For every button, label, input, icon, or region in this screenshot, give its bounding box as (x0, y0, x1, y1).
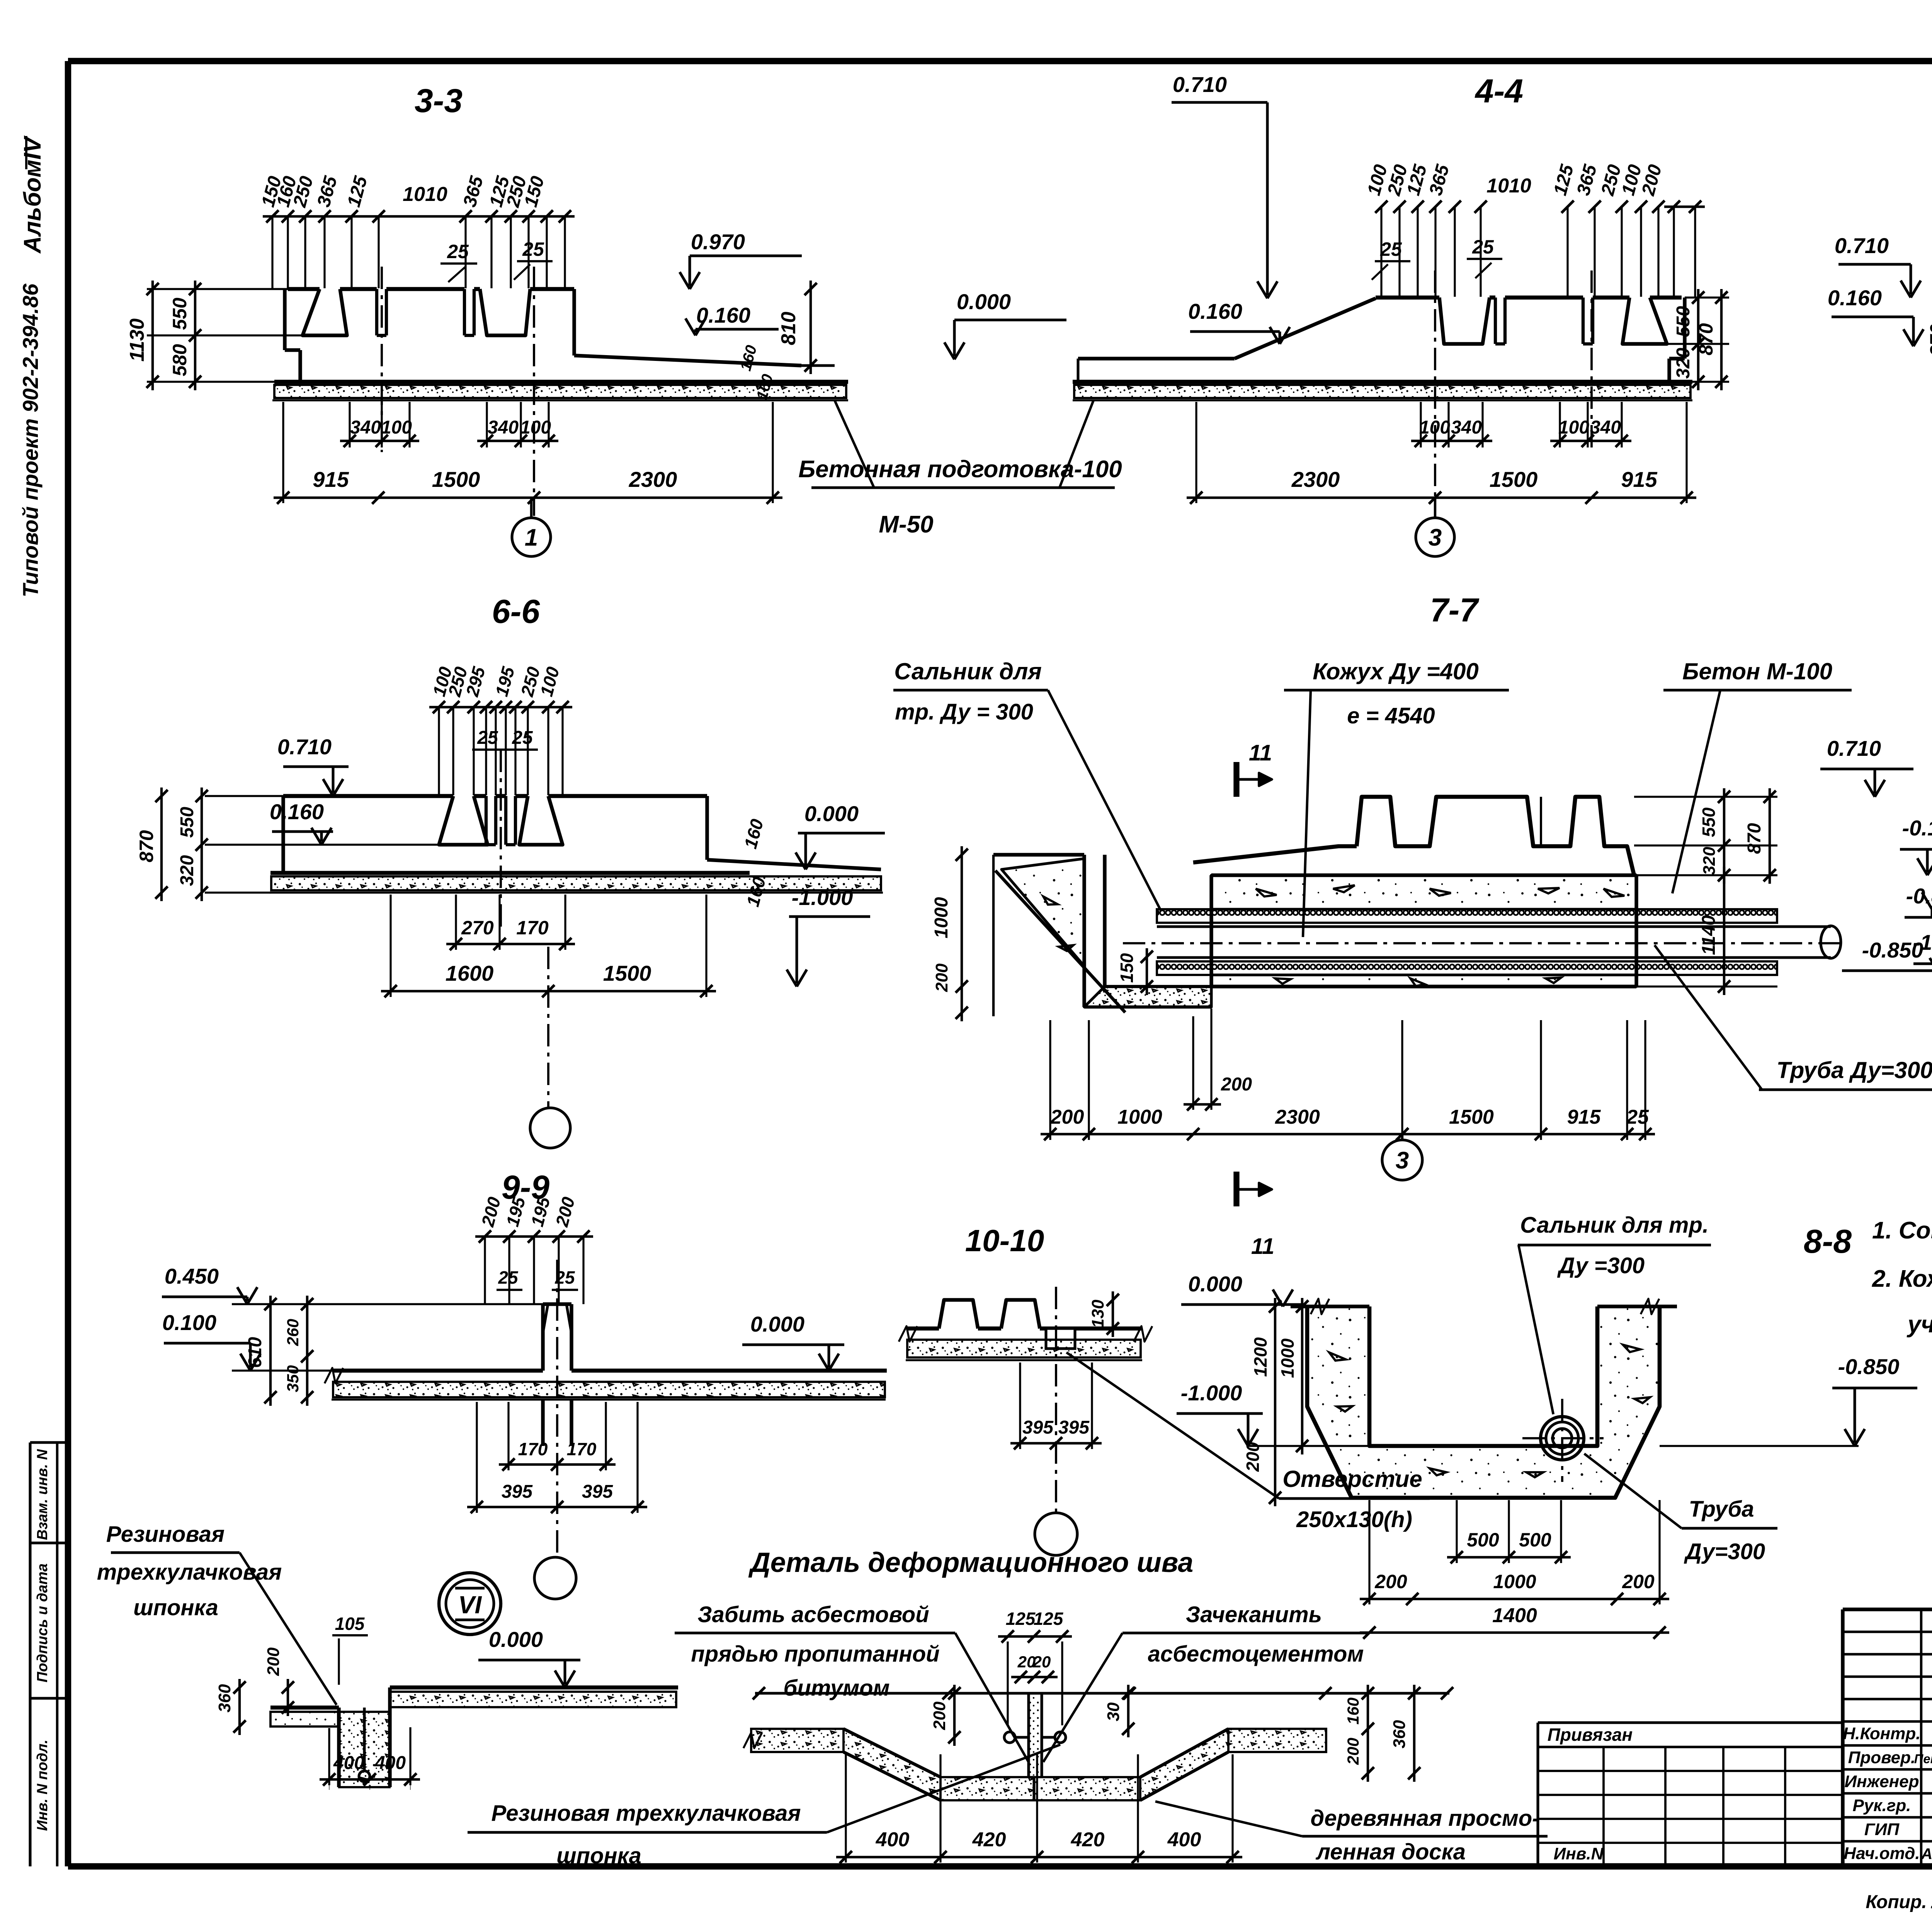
svg-text:395: 395 (1058, 1417, 1090, 1438)
svg-text:Н.Контр.: Н.Контр. (1843, 1724, 1920, 1743)
svg-text:трехкулачковая: трехкулачковая (97, 1560, 282, 1585)
svg-text:610: 610 (245, 1337, 265, 1368)
svg-text:Подпись и дата: Подпись и дата (34, 1563, 51, 1682)
svg-text:Деталь деформационного шва: Деталь деформационного шва (748, 1547, 1194, 1578)
svg-text:Рук.гр.: Рук.гр. (1853, 1796, 1911, 1815)
section 4-4 profile top surface (1376, 296, 1439, 300)
svg-text:2. Кожух Ду=400 и сальник: 2. Кожух Ду=400 и сальник для трубы Ду=3… (1872, 1266, 1932, 1292)
svg-text:Зачеканить: Зачеканить (1186, 1602, 1322, 1627)
svg-text:Труба: Труба (1689, 1497, 1754, 1522)
svg-text:1500: 1500 (603, 961, 651, 985)
svg-text:810: 810 (777, 312, 800, 345)
svg-text:420: 420 (1071, 1829, 1105, 1851)
svg-text:1000: 1000 (1117, 1106, 1162, 1128)
svg-text:6-6: 6-6 (492, 593, 540, 630)
section 6-6 profile top (283, 794, 453, 798)
joint right slope (1140, 1729, 1228, 1777)
svg-text:320: 320 (177, 855, 197, 886)
svg-text:20: 20 (1032, 1653, 1051, 1671)
svg-text:Кожух Ду =400: Кожух Ду =400 (1313, 658, 1479, 684)
section 7-7 pipe труба (1157, 925, 1831, 928)
svg-text:Нач.отд.: Нач.отд. (1844, 1844, 1920, 1863)
svg-text:ГИП: ГИП (1864, 1820, 1900, 1839)
section 7-7 pipe axis (1123, 942, 1841, 944)
svg-text:170: 170 (567, 1439, 597, 1459)
svg-text:125: 125 (1034, 1609, 1064, 1629)
section 3-3 left edge wall (283, 289, 286, 350)
section 8-8 dim 1400 (1360, 1631, 1669, 1634)
svg-text:200: 200 (930, 1701, 949, 1730)
svg-text:Ду=300: Ду=300 (1684, 1539, 1765, 1564)
section 4-4 main bottom dims 2300/1500/915 (1195, 402, 1197, 503)
section 7-7 bottom dims (1049, 1020, 1051, 1140)
привязан table (1538, 1721, 1843, 1724)
svg-text:Инженер: Инженер (1844, 1772, 1919, 1791)
section 6-6 axis circle (530, 1108, 570, 1148)
section 10-10 slab with teeth (906, 1327, 939, 1331)
svg-text:-1.000: -1.000 (792, 885, 853, 910)
svg-text:0.160: 0.160 (270, 799, 324, 824)
svg-text:1000: 1000 (931, 897, 952, 938)
svg-text:7-7: 7-7 (1430, 592, 1480, 629)
svg-text:360: 360 (1390, 1720, 1409, 1749)
section 4-4 top dimension stack (1664, 206, 1705, 208)
section 7-7 right height dims (1634, 796, 1777, 798)
section 3-3 right 810 dimension (810, 281, 812, 374)
section 6-6 right dovetail groove (519, 796, 563, 845)
svg-text:М-50: М-50 (879, 511, 933, 538)
svg-text:1500: 1500 (432, 467, 480, 492)
edge detail waterstop (363, 1708, 366, 1770)
svg-text:асбестоцементом: асбестоцементом (1148, 1641, 1364, 1667)
section 7-7 slab outline (1209, 875, 1213, 987)
side stamp table bottom-left (30, 1441, 68, 1444)
svg-text:0.160: 0.160 (1188, 299, 1242, 323)
section 4-4 slot pair (1494, 298, 1497, 344)
section 7-7 pit left (993, 853, 1084, 856)
svg-text:340: 340 (1590, 417, 1621, 438)
section 6-6 slot pair (485, 796, 488, 845)
joint bottom dims 400/420/420/400 (845, 1754, 847, 1863)
joint left slab (751, 1729, 844, 1752)
svg-text:1010: 1010 (1486, 175, 1531, 197)
svg-text:25: 25 (1472, 236, 1494, 258)
section 4-4 left slope to ground (1235, 298, 1376, 359)
svg-text:870: 870 (1744, 823, 1765, 854)
section 8-8 trough inner outline (1369, 1306, 1597, 1446)
section 4-4 dovetail groove (1622, 298, 1667, 344)
section 6-6 slab bottom (270, 871, 750, 875)
svg-text:0.450: 0.450 (165, 1264, 219, 1288)
svg-text:400: 400 (876, 1829, 910, 1851)
section 6-6 right edge slope (705, 796, 709, 860)
svg-text:915: 915 (1567, 1106, 1601, 1128)
section 9-9 left height dims (269, 1296, 272, 1406)
svg-text:25: 25 (522, 238, 544, 260)
section 4-4 axis circle 3 (1434, 498, 1436, 518)
axis medallion VI (439, 1573, 501, 1635)
section 6-6 dims 270/170 (455, 895, 457, 950)
svg-text:0.710: 0.710 (1173, 72, 1227, 97)
section 10-10 dims 395/395 (1019, 1362, 1021, 1449)
svg-text:2300: 2300 (1291, 467, 1340, 492)
svg-text:1140: 1140 (1699, 915, 1719, 955)
section 9-9 axis (556, 1260, 558, 1556)
svg-text:105: 105 (335, 1614, 365, 1634)
svg-text:30: 30 (1104, 1702, 1123, 1721)
section 4-4 groove (wide) (1439, 298, 1490, 344)
svg-text:8-8: 8-8 (1804, 1223, 1852, 1260)
svg-text:VI: VI (458, 1591, 482, 1619)
svg-text:1010: 1010 (403, 183, 447, 206)
section 7-7 cut mark 11 upper (1233, 762, 1239, 797)
section 6-6 axes (500, 750, 502, 927)
svg-text:Бетонная подготовка-100: Бетонная подготовка-100 (798, 456, 1122, 483)
svg-text:учтены на л. КЖ-30,31.: учтены на л. КЖ-30,31. (1906, 1311, 1932, 1338)
svg-text:Забить асбестовой: Забить асбестовой (697, 1602, 929, 1627)
svg-text:0.970: 0.970 (691, 230, 745, 254)
svg-text:1400: 1400 (1492, 1604, 1537, 1627)
svg-text:200: 200 (264, 1647, 283, 1676)
section 3-3 profile top surface (288, 287, 320, 291)
edge detail dims 400/400 (329, 1784, 330, 1790)
section 3-3 left height dimensions (147, 288, 288, 290)
section 6-6 left dovetail groove (439, 796, 488, 845)
svg-text:-1.000: -1.000 (1181, 1381, 1242, 1405)
section 7-7 pit dims (992, 855, 995, 1016)
section 7-7 axis circle 3 (1401, 1134, 1403, 1140)
svg-text:0.000: 0.000 (489, 1627, 543, 1652)
svg-text:0.710: 0.710 (1827, 736, 1881, 760)
svg-text:915: 915 (313, 467, 349, 492)
section 7-7 pit floor slab (1084, 987, 1211, 1007)
svg-text:4-4: 4-4 (1475, 73, 1523, 110)
section 8-8 wall top edges (1291, 1305, 1369, 1308)
section 3-3 axis circle 1 (530, 498, 532, 518)
section 3-3 slot 2 (25mm) (463, 289, 466, 335)
svg-text:25: 25 (1380, 238, 1402, 260)
svg-text:Петропавловская: Петропавловская (1914, 1752, 1932, 1766)
svg-text:395: 395 (502, 1482, 533, 1502)
svg-text:Бетон М-100: Бетон М-100 (1682, 658, 1832, 684)
section 3-3 groove 2 (480, 289, 530, 335)
svg-text:200: 200 (1221, 1074, 1252, 1095)
svg-text:870: 870 (1695, 323, 1717, 356)
section 3-3 slab bottom line (274, 380, 848, 384)
svg-text:2300: 2300 (1275, 1106, 1320, 1128)
svg-text:400: 400 (333, 1753, 364, 1773)
svg-text:100: 100 (1558, 417, 1589, 438)
section 9-9 wall below slab (541, 1399, 544, 1446)
svg-text:400: 400 (1167, 1829, 1201, 1851)
section 10-10 slab hatch (907, 1340, 1141, 1357)
svg-text:Сальник для тр.: Сальник для тр. (1520, 1213, 1709, 1238)
section 4-4 concrete prep strip (1074, 385, 1690, 398)
svg-text:1500: 1500 (1449, 1106, 1494, 1128)
svg-text:340: 340 (488, 417, 519, 438)
joint right slab (1228, 1729, 1326, 1752)
svg-text:200: 200 (1050, 1106, 1084, 1128)
title block small grid (1843, 1631, 1932, 1633)
svg-text:-0.850: -0.850 (1838, 1354, 1900, 1379)
svg-text:260: 260 (284, 1319, 302, 1346)
section 3-3 concrete prep strip (hatched) (274, 385, 846, 398)
svg-text:550: 550 (1673, 306, 1694, 337)
svg-text:10-10: 10-10 (965, 1223, 1044, 1258)
svg-text:3-3: 3-3 (415, 82, 463, 119)
svg-text:250х130(h): 250х130(h) (1296, 1507, 1412, 1532)
svg-text:1. Совместно с данным см .: 1. Совместно с данным см . ТП902-2-394.8… (1872, 1217, 1932, 1244)
svg-text:1000: 1000 (1277, 1338, 1298, 1378)
svg-text:11: 11 (1249, 740, 1272, 765)
svg-text:0.710: 0.710 (277, 735, 332, 759)
section 9-9 top dimension stack (475, 1235, 593, 1238)
svg-text:1600: 1600 (446, 961, 494, 985)
svg-text:шпонка: шпонка (133, 1595, 218, 1620)
svg-text:25: 25 (512, 728, 533, 748)
title block signature rows (1843, 1744, 1932, 1747)
svg-text:АльбомIV: АльбомIV (19, 135, 46, 254)
svg-text:e = 4540: e = 4540 (1347, 703, 1435, 728)
section 9-9 dims 170/170 (507, 1402, 509, 1470)
section 4-4 channel axes (1434, 270, 1436, 516)
section 4-4 right edge wall (1683, 298, 1686, 359)
joint seam with packing (1027, 1693, 1030, 1777)
svg-text:0.000: 0.000 (804, 801, 859, 826)
svg-text:400: 400 (374, 1753, 406, 1773)
svg-text:1200: 1200 (1250, 1337, 1270, 1377)
section 4-4 right height dims (1685, 296, 1729, 298)
svg-text:Отверстие: Отверстие (1282, 1466, 1422, 1492)
svg-text:Резиновая: Резиновая (106, 1522, 224, 1547)
page frame / border (68, 58, 1932, 65)
svg-text:-0.850: -0.850 (1862, 938, 1923, 962)
joint dim 30 right (1127, 1685, 1129, 1737)
section 3-3 extension lines from stack (271, 216, 273, 288)
svg-text:11: 11 (1251, 1234, 1274, 1259)
section 3-3 dovetail groove 1 (303, 289, 347, 335)
section 4-4 100/340 dims (1420, 402, 1422, 447)
svg-text:200: 200 (1622, 1571, 1655, 1592)
section 9-9 dims 395/395 (476, 1402, 478, 1513)
section 10-10 axis circle (1035, 1513, 1077, 1555)
section 3-3 main bottom dims 915/1500/2300 (282, 402, 284, 503)
svg-text:25: 25 (498, 1267, 519, 1288)
svg-text:550: 550 (177, 807, 197, 838)
svg-text:шпонка: шпонка (556, 1843, 641, 1868)
svg-text:170: 170 (516, 917, 549, 939)
svg-text:160: 160 (1344, 1698, 1362, 1725)
section 8-8 left height dims (1274, 1298, 1276, 1506)
svg-text:1130: 1130 (126, 318, 148, 362)
section 3-3 top dimension stack (263, 215, 575, 218)
svg-text:320: 320 (1700, 847, 1719, 875)
svg-text:битумом: битумом (784, 1675, 890, 1701)
svg-text:550: 550 (1699, 807, 1719, 837)
svg-text:25: 25 (1626, 1106, 1649, 1128)
section 3-3 slot 1 (25mm) (375, 289, 378, 335)
section 3-3 right edge step and slope (572, 289, 576, 356)
svg-text:420: 420 (972, 1829, 1006, 1851)
section 6-6 main dims 1600/1500 (389, 895, 391, 997)
svg-text:500: 500 (1519, 1529, 1551, 1551)
svg-text:500: 500 (1467, 1529, 1499, 1551)
svg-text:Сальник для: Сальник для (894, 658, 1042, 684)
svg-text:0.710: 0.710 (1835, 233, 1889, 258)
svg-text:550: 550 (169, 298, 190, 330)
section 4-4 slab bottom line (1073, 380, 1692, 384)
title block outer box (1843, 1607, 1932, 1611)
section 10-10 axis (1055, 1287, 1057, 1513)
svg-text:Труба Ду=300: Труба Ду=300 (1777, 1057, 1932, 1083)
svg-text:270: 270 (461, 917, 494, 939)
svg-text:580: 580 (169, 344, 190, 376)
svg-text:Провер.: Провер. (1848, 1748, 1915, 1767)
joint left slope (844, 1729, 940, 1777)
svg-text:деревянная просмо-: деревянная просмо- (1311, 1806, 1540, 1831)
section 7-7 top profile with teeth (1193, 846, 1357, 862)
section 9-9 axis circle (534, 1557, 576, 1599)
svg-text:Инв. N подл.: Инв. N подл. (34, 1740, 51, 1831)
svg-text:0.100: 0.100 (162, 1310, 216, 1335)
svg-text:340: 340 (1451, 417, 1482, 438)
svg-text:200: 200 (932, 963, 951, 992)
svg-text:130: 130 (1088, 1300, 1107, 1328)
section 10-10 dim 130 (1112, 1291, 1114, 1337)
svg-text:Резиновая трехкулачковая: Резиновая трехкулачковая (491, 1801, 801, 1826)
svg-text:200: 200 (1374, 1571, 1407, 1592)
svg-text:0.000: 0.000 (1188, 1272, 1242, 1296)
svg-text:Копир. Лаврушина: Копир. Лаврушина (1866, 1892, 1932, 1912)
section 9-9 level extensions (232, 1303, 543, 1305)
svg-text:ленная доска: ленная доска (1315, 1839, 1466, 1864)
svg-text:2300: 2300 (629, 467, 677, 492)
section 6-6 top dimension stack (429, 706, 572, 708)
svg-text:1500: 1500 (1490, 467, 1538, 492)
svg-text:1: 1 (525, 524, 538, 551)
svg-text:350: 350 (284, 1365, 302, 1392)
section 3-3 channel axes dash-dot (381, 267, 383, 452)
svg-text:3: 3 (1429, 524, 1442, 551)
svg-text:0.000: 0.000 (750, 1312, 804, 1336)
svg-text:25: 25 (477, 728, 498, 748)
section 8-8 dims 200/1000/200 (1368, 1500, 1370, 1604)
section 8-8 trough outer outline (1307, 1306, 1660, 1498)
section 8-8 dims 500/500 (1456, 1500, 1458, 1563)
edge detail dims (287, 1679, 289, 1716)
section 3-3 340/100 dims (349, 402, 350, 447)
svg-text:150: 150 (1117, 953, 1137, 983)
section 6-6 left edge (281, 796, 285, 873)
svg-text:Ду =300: Ду =300 (1557, 1253, 1645, 1278)
svg-text:прядью пропитанной: прядью пропитанной (691, 1641, 939, 1667)
svg-text:915: 915 (1621, 467, 1657, 492)
joint right dims 160/200/360 (1367, 1685, 1369, 1782)
section 8-8 concrete fill (1307, 1306, 1660, 1498)
joint middle slab (940, 1777, 1140, 1800)
svg-text:1000: 1000 (1493, 1571, 1536, 1592)
svg-text:100: 100 (1419, 417, 1450, 438)
svg-text:0.000: 0.000 (957, 289, 1011, 314)
section 9-9 wall (541, 1304, 544, 1371)
svg-text:0.160: 0.160 (1828, 286, 1882, 310)
svg-text:Альтшуллер: Альтшуллер (1921, 1846, 1932, 1863)
section 10-10 opening (1046, 1328, 1075, 1349)
joint top reference line (755, 1692, 1449, 1695)
svg-text:Инв.N: Инв.N (1554, 1844, 1604, 1863)
edge detail drawing (390, 1686, 678, 1690)
svg-text:0.160: 0.160 (696, 303, 750, 327)
svg-text:Привязан: Привязан (1548, 1725, 1633, 1745)
svg-text:320: 320 (1673, 348, 1694, 379)
svg-text:Типовой проект 902-2-394.86: Типовой проект 902-2-394.86 (18, 283, 43, 597)
joint dim 200 left (953, 1685, 956, 1746)
svg-text:200: 200 (1344, 1738, 1362, 1765)
section 7-7 casing (кожух) bands (1157, 909, 1777, 923)
svg-text:25: 25 (447, 241, 469, 262)
svg-text:870: 870 (1926, 324, 1932, 356)
svg-text:360: 360 (215, 1684, 234, 1713)
waterstop bulbs (1004, 1732, 1015, 1743)
svg-text:Взам. инв. N: Взам. инв. N (34, 1449, 51, 1540)
section 9-9 slab (332, 1369, 543, 1373)
svg-text:-0.160: -0.160 (1902, 816, 1932, 840)
svg-text:тр. Ду = 300: тр. Ду = 300 (895, 699, 1033, 725)
svg-text:870: 870 (136, 830, 157, 862)
svg-text:170: 170 (518, 1439, 548, 1459)
section 8-8 pipe (1541, 1417, 1584, 1460)
svg-text:100: 100 (520, 417, 551, 438)
svg-text:200: 200 (1243, 1442, 1263, 1472)
svg-text:395: 395 (1022, 1417, 1054, 1438)
section 7-7 concrete slab M-100 hatched (1211, 875, 1636, 909)
svg-text:340: 340 (350, 417, 381, 438)
joint dims 125/125 and 20/20 (998, 1635, 1072, 1638)
svg-text:395: 395 (582, 1482, 613, 1502)
svg-text:3: 3 (1396, 1147, 1409, 1174)
section 6-6 left height dims (205, 795, 283, 797)
svg-text:100: 100 (381, 417, 412, 438)
svg-text:125: 125 (1006, 1609, 1036, 1629)
section 7-7 dim 150 (1146, 948, 1148, 995)
section 7-7 cut mark 11 lower (1233, 1172, 1239, 1206)
